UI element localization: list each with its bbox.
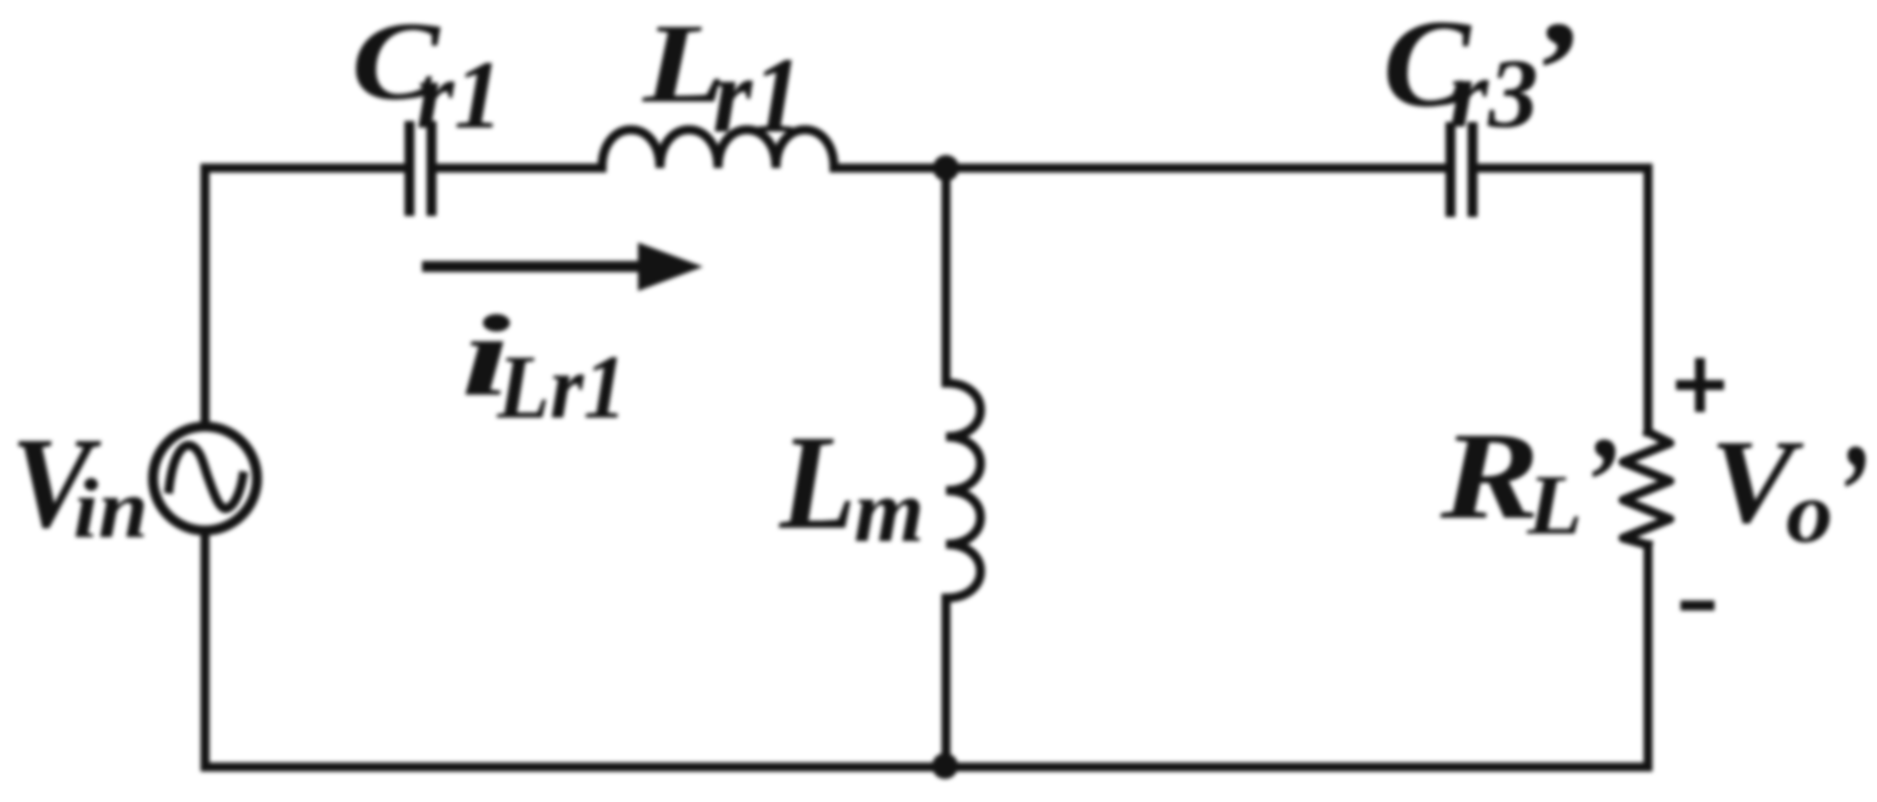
svg-text:’: ’ xyxy=(1580,412,1620,550)
svg-text:L: L xyxy=(1526,457,1582,553)
svg-text:in: in xyxy=(73,462,148,556)
svg-text:r1: r1 xyxy=(416,41,502,149)
svg-text:o: o xyxy=(1786,463,1833,561)
svg-text:r3: r3 xyxy=(1449,38,1538,148)
svg-text:m: m xyxy=(854,462,924,561)
svg-text:R: R xyxy=(1439,407,1539,545)
svg-text:L: L xyxy=(779,408,856,558)
svg-text:r1: r1 xyxy=(713,36,803,155)
svg-text:Lr1: Lr1 xyxy=(496,337,626,438)
svg-text:’: ’ xyxy=(1834,417,1870,565)
svg-text:’: ’ xyxy=(1527,0,1579,146)
